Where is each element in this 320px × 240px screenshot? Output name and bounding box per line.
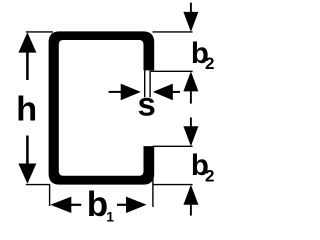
svg-text:2: 2 — [205, 166, 214, 185]
dimension b1 right arrow — [117, 197, 147, 213]
extension line lower lip tip — [153, 145, 193, 147]
dimension b1 left arrow — [50, 197, 81, 213]
dimension b2 bottom up arrow — [183, 185, 198, 216]
dimension s left-pointing arrow — [153, 84, 180, 101]
extension line top left — [26, 31, 53, 33]
dimension b2 bottom down arrow — [183, 118, 198, 147]
extension line s right — [149, 70, 151, 97]
extension line bottom right — [153, 184, 193, 186]
C-profile outline — [49, 31, 155, 184]
extension line s left — [144, 70, 146, 97]
dimension h up arrow — [18, 32, 36, 80]
extension line top right — [153, 31, 193, 33]
extension line upper lip tip — [151, 70, 193, 72]
svg-text:b: b — [87, 185, 108, 224]
svg-text:1: 1 — [106, 208, 114, 224]
extension line bottom left — [26, 184, 50, 186]
dimension b2 top down arrow — [183, 3, 198, 32]
svg-text:2: 2 — [205, 54, 214, 73]
extension line b1 right — [152, 146, 154, 207]
svg-text:h: h — [16, 91, 37, 129]
extension line b1 left — [49, 185, 51, 206]
dimension s right-pointing arrow — [109, 84, 141, 101]
svg-text:s: s — [138, 86, 156, 123]
dimension b2 top up arrow — [183, 71, 198, 103]
dimension h down arrow — [18, 136, 36, 184]
